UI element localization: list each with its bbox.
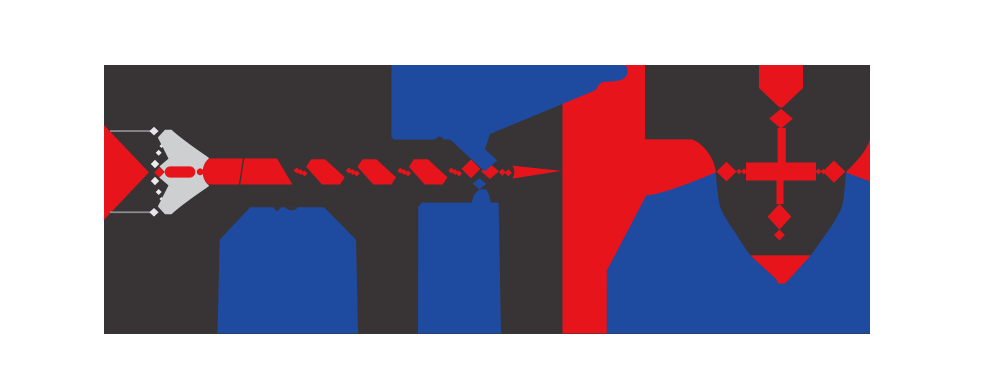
blue shield base	[607, 173, 870, 334]
cross bottom wedge	[750, 255, 810, 283]
X cluster blue bottom diamond	[473, 178, 487, 189]
silver bird	[158, 130, 209, 214]
contrail block 1	[203, 159, 243, 185]
panel 1 notch 2	[285, 207, 299, 210]
red spike	[512, 166, 561, 179]
X cluster red left diamond	[462, 160, 481, 179]
diamond triple 4	[448, 168, 462, 177]
cross top arm	[759, 65, 803, 108]
background panel	[104, 65, 870, 334]
cross diamond right	[823, 161, 846, 183]
right ribbon wedge	[846, 139, 870, 181]
diamond triple 3	[397, 168, 411, 177]
panel 1 notch 1	[273, 207, 282, 211]
contrail dash 4	[358, 159, 397, 184]
cross small diamond	[774, 230, 785, 241]
diamond pair right	[499, 169, 512, 177]
cross stem upper	[778, 128, 786, 163]
blue wedge	[392, 65, 628, 160]
X cluster red right diamond	[481, 164, 499, 179]
red diamond at bird nose	[154, 167, 164, 177]
cross horizontal bar	[746, 163, 816, 181]
red triangle	[104, 125, 149, 220]
thin silver line bottom	[110, 211, 151, 213]
contrail block 2	[240, 159, 292, 185]
red capsule in bird	[165, 166, 196, 177]
cross stem lower	[777, 180, 784, 204]
silver line-end diamond top	[149, 127, 158, 136]
cross diamond upper	[769, 109, 793, 129]
diamond triple 1	[294, 168, 308, 177]
red slanted bar with left ribbon arm	[563, 65, 717, 334]
thin silver line top	[110, 130, 151, 132]
cross diamond left	[717, 162, 737, 182]
silver line-end diamond bottom	[149, 208, 158, 217]
X cluster blue top diamond	[473, 149, 498, 171]
diamond triple 2	[346, 168, 360, 177]
white diamond chain	[151, 144, 164, 201]
red dot	[197, 168, 204, 175]
cross bar small diamonds left	[736, 169, 741, 174]
blue bump above panel 2	[471, 189, 491, 205]
cross bar small diamonds right	[816, 169, 822, 175]
blue panel 1	[218, 207, 359, 333]
contrail dash 5	[409, 159, 448, 184]
contrail dash 3	[306, 159, 345, 184]
cross diamond lower	[768, 204, 792, 230]
blue panel 2	[418, 203, 501, 334]
